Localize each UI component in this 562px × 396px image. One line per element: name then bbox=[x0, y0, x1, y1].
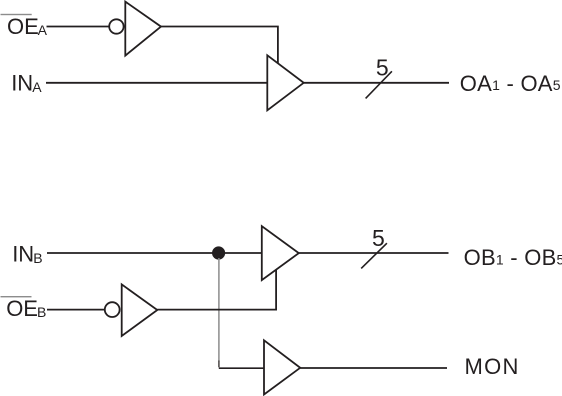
wire OA bus bbox=[304, 82, 449, 84]
bus-width slash B bbox=[361, 243, 387, 268]
wire INA bbox=[46, 82, 267, 84]
svg-text:MON: MON bbox=[465, 354, 520, 379]
bus-width slash A bbox=[366, 71, 392, 98]
label OEA overline bbox=[1, 14, 32, 15]
wire into MON buffer input bbox=[219, 367, 264, 369]
wire OEA lead bbox=[47, 26, 110, 28]
junction dot bbox=[212, 246, 225, 259]
wire junction to MON buffer (lower segment) bbox=[218, 361, 220, 368]
svg-text:A: A bbox=[32, 79, 42, 95]
inverter U1 bbox=[125, 2, 161, 56]
wire MON bbox=[300, 367, 447, 369]
svg-text:5: 5 bbox=[376, 55, 389, 81]
wire U1 output to U2 enable bbox=[161, 27, 278, 64]
wire INB bbox=[47, 252, 262, 254]
wire OEB lead bbox=[47, 309, 104, 311]
wire junction to MON buffer (vertical drop) bbox=[218, 258, 220, 362]
svg-text:OB1 - OB5: OB1 - OB5 bbox=[464, 245, 562, 270]
buffer U3 bbox=[262, 226, 299, 280]
wire OB bus bbox=[299, 252, 449, 254]
svg-text:B: B bbox=[37, 304, 46, 320]
wire U4 output to U3 enable bbox=[157, 270, 276, 310]
svg-text:OE: OE bbox=[6, 296, 38, 321]
svg-text:A: A bbox=[38, 22, 48, 38]
label OEB overline bbox=[1, 296, 32, 297]
svg-text:5: 5 bbox=[372, 225, 385, 251]
inverter U1 bubble bbox=[109, 19, 123, 33]
svg-text:OA1 - OA5: OA1 - OA5 bbox=[460, 71, 561, 96]
svg-text:IN: IN bbox=[11, 71, 33, 96]
buffer U2 bbox=[267, 55, 303, 110]
inverter U4 bubble bbox=[105, 302, 120, 317]
inverter U4 bbox=[122, 284, 158, 336]
svg-text:B: B bbox=[33, 250, 42, 266]
buffer U5 bbox=[264, 340, 300, 394]
svg-text:IN: IN bbox=[12, 242, 34, 267]
svg-text:OE: OE bbox=[7, 14, 39, 39]
